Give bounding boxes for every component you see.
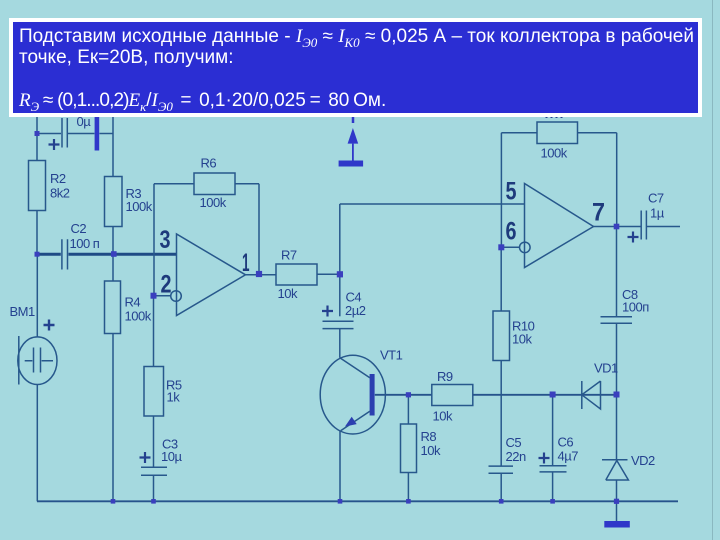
wire VD2 to rail bbox=[616, 481, 618, 502]
svg-text:2: 2 bbox=[161, 271, 172, 299]
resistor R6 bbox=[194, 156, 235, 211]
wire stage link to pin5 bbox=[340, 203, 525, 205]
node rail C5 bbox=[499, 499, 504, 504]
ground bbox=[604, 521, 630, 528]
text box bbox=[9, 18, 702, 117]
wire R10 to C5 bbox=[500, 361, 502, 466]
node U2 output bbox=[614, 224, 620, 230]
wire U1 output bbox=[246, 274, 277, 276]
resistor R10 bbox=[493, 311, 535, 361]
wire C5 to rail bbox=[500, 474, 502, 502]
wire pin6 to R10 bbox=[500, 247, 502, 311]
node I (VD1 cathode / C8 / VD2) bbox=[614, 392, 620, 398]
svg-text:4µ7: 4µ7 bbox=[558, 449, 579, 464]
op-amp U2 bbox=[520, 184, 594, 268]
svg-text:2µ2: 2µ2 bbox=[345, 303, 366, 318]
wire node H to C6 bbox=[552, 395, 554, 466]
capacitor C2 bbox=[62, 221, 100, 270]
node rail VT1 emitter bbox=[338, 499, 343, 504]
node rail R8 bbox=[406, 499, 411, 504]
svg-text:10µ: 10µ bbox=[161, 449, 182, 464]
wire node I to VD2 bbox=[616, 395, 618, 460]
diode VD2 bbox=[602, 453, 655, 480]
resistor R8 bbox=[401, 424, 441, 473]
node E (R7 / C4) bbox=[337, 271, 343, 277]
wire R2 bottom to BM1 bbox=[36, 211, 38, 338]
wire C2 to op-amp pin3 bbox=[69, 253, 177, 256]
svg-text:R7: R7 bbox=[281, 248, 297, 263]
node F (base / R8 / R9) bbox=[406, 392, 411, 397]
capacitor C5 bbox=[489, 435, 526, 473]
svg-text:BM1: BM1 bbox=[10, 304, 36, 319]
wire C1 link left bbox=[37, 133, 61, 135]
wire R5 to C3 bbox=[153, 416, 155, 467]
node B (R2 bottom / BM1 / C2) bbox=[35, 252, 40, 257]
wire C7 right bbox=[647, 226, 680, 228]
svg-text:100k: 100k bbox=[541, 146, 568, 161]
transistor VT1 bbox=[320, 348, 402, 435]
wire R3 bottom to R4 top bbox=[112, 227, 114, 282]
svg-text:C7: C7 bbox=[648, 191, 664, 206]
wire C1 mid bbox=[68, 133, 94, 135]
svg-text:1µ: 1µ bbox=[650, 206, 665, 221]
power supply arrow bbox=[339, 117, 364, 167]
svg-text:C2: C2 bbox=[71, 221, 87, 236]
node rail ground bbox=[614, 499, 619, 504]
wire U2 feedback loop bbox=[501, 133, 616, 248]
svg-text:R8: R8 bbox=[421, 429, 437, 444]
node pin2 bbox=[151, 293, 157, 299]
wire C1 right bbox=[99, 133, 113, 135]
wire U1 feedback loop bbox=[154, 184, 259, 296]
svg-text:C6: C6 bbox=[558, 435, 574, 450]
wire R9 to VD1 to node I bbox=[473, 394, 617, 396]
svg-text:1k: 1k bbox=[167, 390, 181, 405]
wire node E up to corner bbox=[339, 204, 341, 274]
wire C3 to rail bbox=[153, 476, 155, 502]
svg-text:VT1: VT1 bbox=[380, 348, 403, 363]
node A (C1 / R2 top) bbox=[35, 131, 40, 136]
svg-text:5: 5 bbox=[506, 177, 517, 205]
node rail C6 bbox=[550, 499, 555, 504]
svg-text:100п: 100п bbox=[622, 300, 649, 315]
wire pin2 to R5 bbox=[153, 296, 155, 367]
svg-text:10k: 10k bbox=[421, 443, 441, 458]
svg-text:100 п: 100 п bbox=[70, 236, 100, 251]
capacitor C7 bbox=[628, 191, 665, 243]
svg-text:10k: 10k bbox=[433, 409, 453, 424]
svg-text:R4: R4 bbox=[125, 295, 141, 310]
svg-text:6: 6 bbox=[506, 218, 517, 246]
svg-text:R2: R2 bbox=[50, 171, 66, 186]
capacitor C8 bbox=[601, 287, 650, 323]
node rail C3 bbox=[151, 499, 156, 504]
wire left supply vertical bbox=[36, 114, 38, 161]
wire R3 top vertical bbox=[112, 114, 114, 177]
svg-text:R6: R6 bbox=[201, 156, 217, 171]
microphone BM1 bbox=[10, 304, 58, 385]
wire pin6 stub bbox=[501, 246, 519, 248]
svg-text:8k2: 8k2 bbox=[50, 186, 70, 201]
wire VT1 emitter to rail bbox=[339, 431, 341, 502]
svg-text:R9: R9 bbox=[437, 369, 453, 384]
svg-text:100k: 100k bbox=[200, 195, 227, 210]
wire BM1 bottom bbox=[36, 384, 38, 501]
svg-text:7: 7 bbox=[592, 198, 605, 226]
svg-text:10k: 10k bbox=[278, 286, 298, 301]
wire C4 to VT1 collector bbox=[339, 329, 341, 358]
node rail R4 bbox=[111, 499, 116, 504]
node pin6 bbox=[498, 244, 504, 250]
svg-text:100k: 100k bbox=[125, 309, 152, 324]
wire output2 down to C8 bbox=[616, 227, 618, 317]
wire signal to C2 bbox=[37, 253, 61, 256]
resistor R11 feedback 100k bbox=[537, 115, 578, 161]
right edge seam bbox=[712, 0, 713, 540]
wire rail to ground symbol bbox=[616, 501, 618, 521]
resistor R9 bbox=[432, 369, 473, 424]
wire R7 to node E bbox=[317, 273, 340, 275]
ground rail bbox=[37, 500, 678, 502]
wire VT1 base to R9 bbox=[375, 394, 432, 396]
op-amp U1 bbox=[171, 234, 246, 316]
svg-text:100k: 100k bbox=[126, 199, 153, 214]
node C (C2 / R3 / R4 / pin3) bbox=[111, 251, 117, 257]
node D (U1 output) bbox=[256, 271, 262, 277]
capacitor C3 bbox=[140, 437, 183, 476]
svg-text:3: 3 bbox=[160, 226, 171, 254]
capacitor C4 bbox=[322, 290, 366, 329]
resistor R4 bbox=[105, 281, 152, 334]
svg-text:C5: C5 bbox=[506, 435, 522, 450]
wire node E to C4 bbox=[339, 274, 341, 316]
svg-text:22n: 22n bbox=[506, 449, 526, 464]
node H (VD1 anode / C6) bbox=[550, 392, 556, 398]
capacitor C1 bbox=[49, 114, 100, 151]
svg-text:VD2: VD2 bbox=[631, 453, 655, 468]
capacitor C6 bbox=[539, 435, 579, 472]
svg-text:10k: 10k bbox=[512, 332, 532, 347]
svg-text:1: 1 bbox=[242, 249, 250, 277]
wire R8 to rail bbox=[407, 473, 409, 502]
wire C8 to node I bbox=[616, 324, 618, 395]
wire pin2 stub bbox=[154, 295, 172, 297]
wire U2 output to C7 bbox=[594, 226, 641, 228]
resistor R3 bbox=[105, 177, 153, 227]
svg-text:VD1: VD1 bbox=[594, 361, 618, 376]
wire R4 bottom to ground rail bbox=[112, 334, 114, 502]
diode VD1 bbox=[582, 361, 618, 410]
wire C6 to rail bbox=[552, 472, 554, 501]
wire node F to R8 bbox=[407, 395, 409, 424]
resistor R2 bbox=[29, 161, 70, 211]
resistor R5 bbox=[144, 367, 182, 417]
resistor R7 bbox=[276, 248, 317, 302]
